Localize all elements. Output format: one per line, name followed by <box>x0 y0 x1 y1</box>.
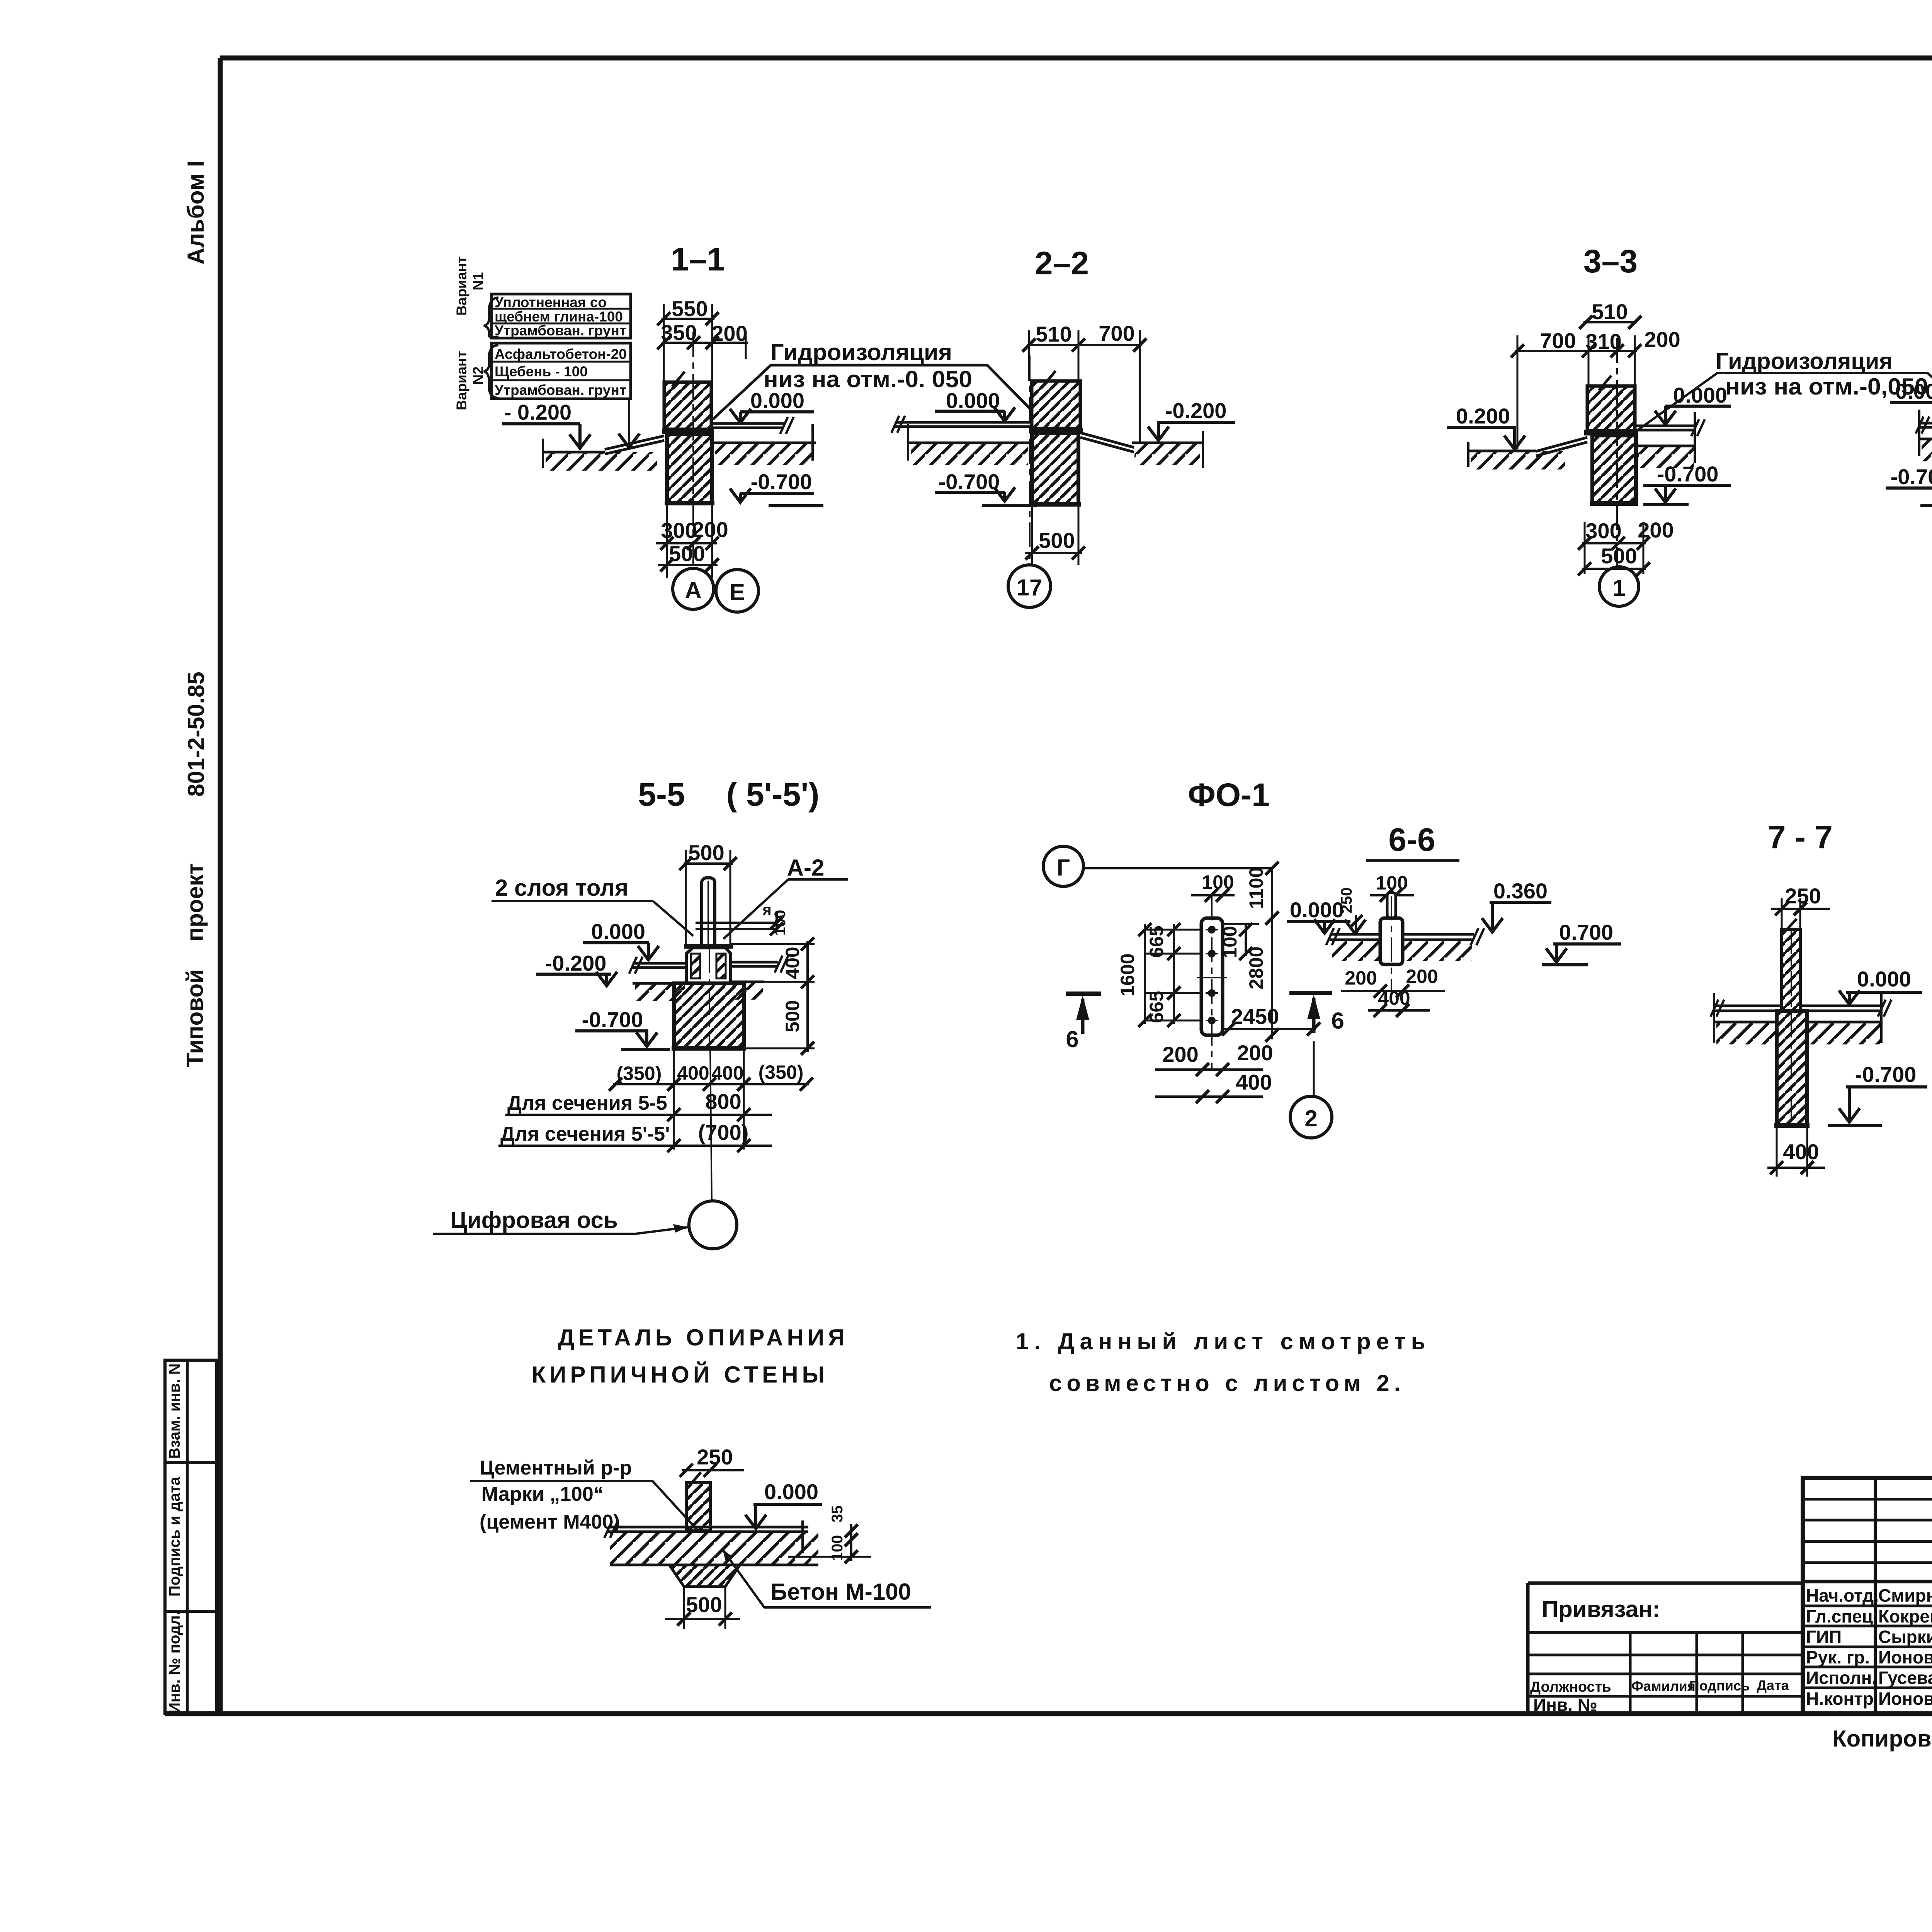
svg-text:665: 665 <box>1146 991 1167 1023</box>
section 1-1 hydro insulation layer <box>662 429 714 434</box>
svg-text:3–3: 3–3 <box>1583 243 1638 279</box>
section 1-1 variant table <box>492 294 631 338</box>
left bottom margin boxes <box>165 1360 217 1463</box>
svg-text:я: я <box>762 901 771 918</box>
svg-text:(350): (350) <box>617 1063 662 1084</box>
title block outer and grid <box>1803 1478 1932 1714</box>
svg-text:510: 510 <box>1592 299 1628 324</box>
svg-text:Г: Г <box>1057 855 1070 881</box>
section 6-6 column <box>1380 918 1403 964</box>
section 4-4 floor slabs both sides <box>1919 422 1932 425</box>
svg-text:КИРПИЧНОЙ СТЕНЫ: КИРПИЧНОЙ СТЕНЫ <box>532 1362 829 1388</box>
FO-1 section cut 6 left <box>1066 992 1101 996</box>
section 3-3 foundation <box>1592 435 1636 503</box>
svg-text:500: 500 <box>688 840 724 865</box>
section 7-7 ground <box>1714 1021 1777 1024</box>
svg-text:- 0.200: - 0.200 <box>504 400 571 424</box>
svg-text:Дата: Дата <box>1757 1677 1789 1693</box>
svg-text:Привязан:: Привязан: <box>1542 1596 1660 1622</box>
svg-text:-0.700: -0.700 <box>1657 462 1719 486</box>
svg-text:2450: 2450 <box>1231 1004 1279 1029</box>
section 5-5 right vertical dims <box>731 943 815 945</box>
svg-text:0.000: 0.000 <box>1290 898 1344 922</box>
axis circle 2 of FO-1 <box>1290 1096 1332 1138</box>
svg-text:Для сечения 5'-5': Для сечения 5'-5' <box>500 1123 670 1145</box>
section 5-5 foundation <box>674 983 744 1048</box>
FO-1 dim 1100 vertical <box>1271 868 1273 918</box>
svg-text:400: 400 <box>677 1062 709 1084</box>
svg-text:200: 200 <box>1644 327 1680 352</box>
section 3-3 floor slab right <box>1635 425 1695 427</box>
svg-text:400: 400 <box>782 947 803 979</box>
leader from circle Г <box>1083 867 1272 869</box>
axis circle 1 <box>1599 567 1639 606</box>
svg-text:5-5: 5-5 <box>638 776 685 813</box>
svg-text:Гидроизоляция: Гидроизоляция <box>770 339 952 365</box>
svg-text:-0.700: -0.700 <box>751 469 812 494</box>
svg-text:Альбом I: Альбом I <box>183 161 209 265</box>
section 2-2 ground right <box>1132 442 1203 444</box>
svg-text:А: А <box>685 577 701 603</box>
svg-text:низ на отм.-0. 050: низ на отм.-0. 050 <box>764 366 972 392</box>
svg-text:0.360: 0.360 <box>1493 879 1548 903</box>
svg-text:500: 500 <box>686 1592 722 1617</box>
svg-text:Цементный р-р: Цементный р-р <box>480 1457 632 1479</box>
svg-text:Щебень - 100: Щебень - 100 <box>495 364 588 379</box>
FO-1 dim 2800 vertical <box>1271 918 1273 1039</box>
section 1-1 axis line <box>692 332 694 565</box>
svg-text:ФО-1: ФО-1 <box>1188 777 1270 813</box>
section 4-4 ground <box>1919 438 1932 440</box>
svg-text:Ионова: Ионова <box>1878 1647 1932 1667</box>
axis circle (unlabeled) <box>689 1201 737 1249</box>
svg-text:Вариант: Вариант <box>454 351 469 410</box>
section 7-7 foundation <box>1777 1011 1807 1126</box>
svg-text:Марки „100“: Марки „100“ <box>481 1483 604 1505</box>
FO-1 dim 100 right of holes <box>1223 923 1259 925</box>
svg-text:6-6: 6-6 <box>1388 821 1435 858</box>
svg-text:N2: N2 <box>470 366 486 384</box>
section 3-3 wall <box>1587 386 1635 431</box>
section 5-5 floor slabs <box>633 962 686 965</box>
section 3-3 hydro insulation layer <box>1584 430 1638 435</box>
svg-text:400: 400 <box>1783 1139 1819 1164</box>
svg-text:Инв. №: Инв. № <box>1533 1695 1597 1715</box>
svg-text:1. Данный лист смотреть: 1. Данный лист смотреть <box>1016 1328 1431 1354</box>
svg-text:-0.200: -0.200 <box>1165 398 1227 423</box>
svg-text:ГИП: ГИП <box>1806 1627 1842 1647</box>
svg-text:Подпись: Подпись <box>1689 1678 1750 1694</box>
svg-text:Вариант: Вариант <box>454 256 469 316</box>
svg-text:2–2: 2–2 <box>1035 245 1089 281</box>
svg-text:500: 500 <box>782 1000 803 1032</box>
svg-text:0.000: 0.000 <box>764 1480 818 1504</box>
svg-text:400: 400 <box>711 1062 743 1084</box>
svg-text:1–1: 1–1 <box>671 241 725 277</box>
title block signature rows <box>1803 1605 1932 1607</box>
svg-text:А-2: А-2 <box>787 855 825 881</box>
section 2-2 blind area right <box>1080 433 1134 447</box>
FO-1 section cut 6 right <box>1289 991 1332 995</box>
section 1-1 ground left <box>543 451 605 454</box>
svg-text:Должность: Должность <box>1530 1679 1611 1695</box>
svg-text:100: 100 <box>829 1535 846 1561</box>
svg-text:35: 35 <box>829 1505 846 1523</box>
FO-1 bolt axis <box>1211 896 1213 1069</box>
drawing frame border <box>220 56 1932 61</box>
svg-text:510: 510 <box>1036 322 1071 346</box>
svg-text:ДЕТАЛЬ ОПИРАНИЯ: ДЕТАЛЬ ОПИРАНИЯ <box>558 1325 849 1350</box>
svg-text:-0.700: -0.700 <box>1891 464 1932 489</box>
svg-text:Асфальтобетон-20: Асфальтобетон-20 <box>495 346 627 362</box>
section 5-5 axis to circle <box>710 1048 712 1201</box>
svg-text:Для сечения 5-5: Для сечения 5-5 <box>507 1092 667 1114</box>
FO-1 dims 665/665 <box>1173 924 1175 1024</box>
svg-text:Гл.спец: Гл.спец <box>1806 1606 1873 1626</box>
variant table leader to ground <box>628 399 630 444</box>
svg-text:2: 2 <box>1304 1105 1317 1131</box>
FO-1 plan strip <box>1201 918 1223 1035</box>
svg-text:1100: 1100 <box>1245 867 1267 909</box>
svg-text:Взам. инв. N: Взам. инв. N <box>166 1364 183 1459</box>
section 2-2 foundation <box>1032 433 1078 504</box>
svg-text:700: 700 <box>1540 328 1576 353</box>
svg-text:Бетон М-100: Бетон М-100 <box>770 1579 911 1605</box>
section 2-2 axis line <box>1029 355 1031 565</box>
svg-text:1600: 1600 <box>1117 953 1138 996</box>
svg-text:Сыркин: Сыркин <box>1878 1627 1932 1647</box>
bolt projection dim 100 <box>776 913 778 932</box>
svg-text:0.000: 0.000 <box>1857 967 1911 991</box>
svg-text:801-2-50.85: 801-2-50.85 <box>183 672 209 797</box>
section 6-6 floor slab <box>1330 933 1380 936</box>
detail brick wall <box>686 1483 710 1531</box>
svg-text:N1: N1 <box>470 272 486 290</box>
svg-text:Н.контр: Н.контр <box>1806 1689 1874 1709</box>
svg-text:100: 100 <box>772 910 789 936</box>
svg-text:665: 665 <box>1146 925 1167 957</box>
section 2-2 hydro insulation layer <box>1029 428 1083 433</box>
detail floor slab <box>608 1526 808 1529</box>
section 5-5 anchor bolt <box>702 878 715 951</box>
axis circle Е <box>716 570 759 612</box>
svg-text:200: 200 <box>1345 967 1377 989</box>
leader to circle 2 <box>1313 1041 1315 1096</box>
section 3-3 ground left <box>1468 450 1536 452</box>
svg-text:0.700: 0.700 <box>1559 920 1613 944</box>
svg-text:400: 400 <box>1236 1070 1272 1094</box>
svg-text:Рук. гр.: Рук. гр. <box>1806 1647 1870 1667</box>
svg-text:100: 100 <box>1219 926 1241 958</box>
svg-text:6: 6 <box>1331 1008 1344 1034</box>
FO-1 hole leader lines left <box>1145 929 1201 931</box>
svg-text:Типовой: Типовой <box>182 969 208 1067</box>
svg-text:(700): (700) <box>698 1120 749 1145</box>
svg-text:200: 200 <box>1237 1041 1273 1065</box>
svg-text:500: 500 <box>1039 528 1075 553</box>
section 6-6 ground <box>1332 941 1379 961</box>
svg-text:Е: Е <box>730 579 745 605</box>
svg-text:300: 300 <box>1585 519 1621 543</box>
svg-text:Гусева: Гусева <box>1878 1668 1932 1688</box>
title block small grid rows <box>1803 1498 1932 1501</box>
section 1-1 wall <box>664 382 711 429</box>
detail right small dims 35/100 <box>850 1524 852 1561</box>
FO-1 dim 1600 vertical <box>1144 924 1146 1024</box>
section 5-5 ground <box>633 982 686 985</box>
detail concrete bedding trapezoid <box>669 1565 740 1587</box>
svg-text:250: 250 <box>1338 888 1355 913</box>
svg-text:1: 1 <box>1612 575 1625 601</box>
svg-text:( 5'-5'): ( 5'-5') <box>726 776 820 813</box>
axis circle Г <box>1043 846 1083 886</box>
svg-text:7 - 7: 7 - 7 <box>1768 819 1833 855</box>
section 6-6 anchor bolt top <box>1387 893 1396 918</box>
section 1-1 blind area left <box>605 436 664 449</box>
svg-text:200: 200 <box>1406 966 1438 987</box>
svg-text:0.000: 0.000 <box>1895 379 1932 403</box>
section 2-2 wall <box>1032 381 1080 429</box>
svg-text:200: 200 <box>1162 1042 1198 1066</box>
svg-text:550: 550 <box>672 296 707 321</box>
annex table Привязан <box>1528 1582 1803 1585</box>
svg-text:Инв. № подл.: Инв. № подл. <box>166 1611 183 1713</box>
svg-text:0.000: 0.000 <box>946 388 1000 413</box>
section 3-3 ground right <box>1636 445 1696 447</box>
svg-text:Утрамбован. грунт: Утрамбован. грунт <box>495 323 626 338</box>
svg-text:500: 500 <box>669 541 705 566</box>
svg-text:500: 500 <box>1601 544 1637 568</box>
section 1-1 ground right <box>712 442 816 444</box>
svg-text:Смирнов: Смирнов <box>1878 1585 1932 1605</box>
svg-text:-0.700: -0.700 <box>1855 1062 1917 1087</box>
svg-text:6: 6 <box>1066 1026 1078 1052</box>
svg-text:-0.700: -0.700 <box>939 469 1000 494</box>
svg-text:Цифровая ось: Цифровая ось <box>450 1207 618 1233</box>
svg-text:700: 700 <box>1099 321 1134 345</box>
section 6-6 dim 250 <box>1355 915 1357 932</box>
svg-text:Утрамбован. грунт: Утрамбован. грунт <box>495 382 626 398</box>
section 1-1 floor slab right <box>712 422 784 425</box>
svg-text:0.000: 0.000 <box>591 919 645 944</box>
detail ground band <box>610 1533 818 1565</box>
svg-text:2 слоя толя: 2 слоя толя <box>495 875 628 901</box>
svg-text:совместно с листом 2.: совместно с листом 2. <box>1049 1370 1405 1396</box>
svg-text:Нач.отд.: Нач.отд. <box>1806 1585 1879 1605</box>
svg-text:Исполн.: Исполн. <box>1806 1668 1877 1688</box>
FO-1 bolt holes <box>1208 926 1216 934</box>
svg-text:проект: проект <box>182 863 208 941</box>
svg-text:Подпись и дата: Подпись и дата <box>166 1476 183 1597</box>
section 2-2 floor slab left <box>895 421 1032 424</box>
svg-text:Фамилия: Фамилия <box>1631 1678 1696 1694</box>
svg-text:Гидроизоляция: Гидроизоляция <box>1716 348 1893 374</box>
section 5-5 pedestal <box>686 948 731 983</box>
anchor bolt washer lines <box>696 922 776 924</box>
svg-text:(цемент М400): (цемент М400) <box>480 1511 620 1533</box>
section 7-7 floor slabs <box>1714 1005 1782 1007</box>
svg-text:Ионова: Ионова <box>1878 1689 1932 1709</box>
section 2-2 ground left <box>908 442 1030 444</box>
section 1-1 foundation <box>667 434 712 503</box>
section 3-3 axis line <box>1616 338 1618 566</box>
svg-text:0.200: 0.200 <box>1456 404 1510 428</box>
svg-text:17: 17 <box>1017 575 1043 600</box>
pedestal bolt pockets <box>691 954 700 978</box>
svg-text:Кокрев: Кокрев <box>1878 1606 1932 1626</box>
section 7-7 wall <box>1782 929 1800 1011</box>
section 3-3 blind area left <box>1536 437 1587 451</box>
axis circle 17 <box>1008 565 1051 607</box>
svg-text:Уплотненная со: Уплотненная со <box>495 294 607 310</box>
axis circle А <box>673 568 714 609</box>
svg-text:(350): (350) <box>759 1061 804 1083</box>
svg-text:Копировал: Копировал <box>1832 1726 1932 1752</box>
svg-text:-0.700: -0.700 <box>582 1007 643 1032</box>
svg-text:щебнем глина-100: щебнем глина-100 <box>495 309 623 325</box>
